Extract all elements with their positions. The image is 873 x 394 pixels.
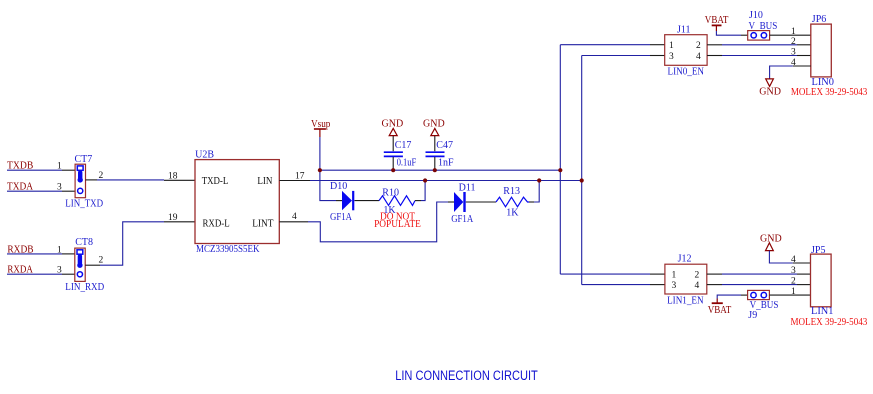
svg-text:LIN1_EN: LIN1_EN <box>667 296 704 307</box>
svg-text:GND: GND <box>759 87 781 98</box>
svg-text:CT7: CT7 <box>75 154 93 165</box>
svg-text:J12: J12 <box>678 253 692 264</box>
node TXDB <box>7 161 34 172</box>
svg-text:R13: R13 <box>503 186 520 197</box>
svg-text:3: 3 <box>669 52 674 62</box>
jumper J10 V_BUS <box>748 10 778 40</box>
connector J11 <box>665 24 707 77</box>
svg-text:4: 4 <box>696 52 701 62</box>
svg-text:17: 17 <box>295 172 305 182</box>
connector JP5 <box>791 245 834 317</box>
svg-text:MCZ33905S5EK: MCZ33905S5EK <box>196 244 260 255</box>
wire VBAT to J9 <box>717 295 747 298</box>
svg-text:Vsup: Vsup <box>311 119 330 130</box>
svg-text:1: 1 <box>57 162 62 172</box>
wire U2B pin 17 (LIN) rail <box>279 180 581 182</box>
svg-text:GND: GND <box>423 119 445 130</box>
svg-text:POPULATE: POPULATE <box>374 219 421 230</box>
wire vertical bus LIN net <box>581 56 583 285</box>
wire J12 pin 2 to JP5 pin 3 <box>707 273 811 275</box>
svg-text:RXD-L: RXD-L <box>203 218 230 229</box>
svg-text:0.1uF: 0.1uF <box>397 157 417 168</box>
wire VBAT to J10 <box>716 31 747 35</box>
svg-text:18: 18 <box>168 171 178 181</box>
wire RXDB to CT8 pin 1 <box>7 253 75 255</box>
svg-text:1: 1 <box>791 27 796 37</box>
svg-text:3: 3 <box>791 266 796 276</box>
wire J12 pin 4 to JP5 pin 2 <box>707 284 811 286</box>
svg-text:LIN1: LIN1 <box>811 306 834 317</box>
svg-text:C17: C17 <box>395 140 412 151</box>
node TXDA <box>7 181 34 192</box>
svg-text:LIN_RXD: LIN_RXD <box>65 282 104 293</box>
wire D10 cathode to R10 <box>355 200 380 202</box>
label MOLEX 39-29-5043 (JP5) <box>791 317 868 328</box>
resistor R13 <box>496 186 529 219</box>
svg-text:D11: D11 <box>459 183 476 194</box>
wire bus to J11 pin 3 <box>582 55 665 57</box>
pin number 2 (CT8) <box>99 255 104 265</box>
svg-text:LIN0_EN: LIN0_EN <box>668 67 705 78</box>
label MOLEX 39-29-5043 (JP6) <box>791 87 867 98</box>
label DO NOT POPULATE <box>374 211 421 230</box>
svg-text:2: 2 <box>695 271 700 281</box>
svg-text:3: 3 <box>57 265 62 275</box>
svg-text:4: 4 <box>292 212 297 222</box>
svg-text:D10: D10 <box>330 181 347 192</box>
svg-text:3: 3 <box>791 48 796 58</box>
svg-text:CT8: CT8 <box>75 237 93 248</box>
svg-text:C47: C47 <box>436 140 453 151</box>
svg-text:3: 3 <box>672 281 677 291</box>
svg-text:TXD-L: TXD-L <box>202 176 229 187</box>
svg-text:LINT: LINT <box>252 218 273 229</box>
svg-text:1nF: 1nF <box>438 157 454 168</box>
IC U2B MCZ33905S5EK <box>195 150 279 255</box>
wire J10 to JP6 pin 1 <box>770 34 811 36</box>
connector JP6 <box>791 14 834 88</box>
power Vsup <box>311 119 330 137</box>
svg-text:MOLEX 39-29-5043: MOLEX 39-29-5043 <box>791 317 868 328</box>
svg-text:2: 2 <box>99 255 104 265</box>
svg-text:LIN CONNECTION CIRCUIT: LIN CONNECTION CIRCUIT <box>395 368 538 383</box>
svg-text:2: 2 <box>696 41 701 51</box>
svg-text:4: 4 <box>791 255 796 265</box>
pin number 3 (CT8) <box>57 265 62 275</box>
power VBAT (top) <box>705 15 729 31</box>
resistor R10 <box>379 188 415 216</box>
pin number 17 <box>295 172 305 182</box>
wire TXDA to CT7 pin 3 <box>7 190 75 192</box>
svg-text:J10: J10 <box>749 10 763 21</box>
wire J9 to JP5 pin 1 <box>769 294 810 296</box>
wire U2B pin 4 (LINT) to D11 anode <box>279 202 454 242</box>
svg-text:19: 19 <box>168 213 178 223</box>
wire TXDB to CT7 pin 1 <box>7 169 75 171</box>
capacitor C47 <box>426 136 455 170</box>
svg-text:GF1A: GF1A <box>330 212 353 223</box>
svg-text:LIN: LIN <box>257 176 272 187</box>
power VBAT (bottom) <box>708 299 732 317</box>
wire JP6 pin 4 to GND <box>770 66 811 79</box>
power GND (C17) <box>382 119 404 136</box>
pin number 18 <box>168 171 178 181</box>
svg-text:2: 2 <box>99 171 104 181</box>
wire bus to J11 pin 1 <box>560 44 664 46</box>
wire R10 to LIN rail riser <box>415 181 425 201</box>
svg-text:GF1A: GF1A <box>451 214 474 225</box>
pin number 3 (CT7) <box>57 182 62 192</box>
ground GND (JP5) <box>760 234 782 251</box>
jumper CT8 <box>75 237 93 282</box>
svg-text:JP6: JP6 <box>812 14 826 25</box>
svg-text:1: 1 <box>791 287 796 297</box>
wire Vsup down to D10 anode <box>320 170 342 200</box>
power GND (C47) <box>423 119 445 136</box>
svg-text:GND: GND <box>760 234 782 245</box>
svg-text:RXDA: RXDA <box>7 264 33 275</box>
wire CT7 pin 2 to U2B pin 18 <box>86 179 196 181</box>
svg-text:2: 2 <box>791 277 796 287</box>
wire GND to JP5 pin 4 <box>769 251 810 263</box>
jumper CT7 <box>75 154 93 198</box>
pin number 2 (CT7) <box>99 171 104 181</box>
svg-text:3: 3 <box>57 182 62 192</box>
wire J11 pin 2 to JP6 pin 2 <box>707 44 811 46</box>
wire bus to J12 pin 3 <box>582 284 665 286</box>
svg-text:LIN_TXD: LIN_TXD <box>65 199 103 210</box>
node RXDA <box>7 264 33 275</box>
diode D11 GF1A <box>451 183 475 225</box>
svg-text:1K: 1K <box>506 208 519 219</box>
junction dots <box>318 168 584 183</box>
svg-text:R10: R10 <box>382 188 399 199</box>
svg-text:VBAT: VBAT <box>708 305 732 316</box>
svg-text:GND: GND <box>382 119 404 130</box>
title LIN CONNECTION CIRCUIT <box>395 368 538 383</box>
svg-text:J11: J11 <box>677 24 691 35</box>
pin number 1 (CT7) <box>57 162 62 172</box>
wire D11 cathode to R13 <box>466 201 496 203</box>
capacitor C17 <box>384 136 417 170</box>
svg-text:1: 1 <box>672 271 677 281</box>
label LIN_RXD <box>65 282 104 293</box>
ground GND (JP6) <box>759 79 781 98</box>
svg-text:MOLEX 39-29-5043: MOLEX 39-29-5043 <box>791 87 867 98</box>
jumper J9 V_BUS <box>748 290 779 321</box>
wire RXDA to CT8 pin 3 <box>7 273 75 275</box>
wire vertical bus V_sup net <box>559 45 561 274</box>
wire Vsup stem <box>319 137 321 170</box>
label LIN_TXD <box>65 199 103 210</box>
wire J11 pin 4 to JP6 pin 3 <box>707 55 811 57</box>
pin number 19 <box>168 213 178 223</box>
wire R13 to LIN rail riser <box>529 181 539 203</box>
svg-text:1: 1 <box>669 41 674 51</box>
wire bus to J12 pin 1 <box>560 273 665 275</box>
wire CT8 pin 2 to U2B pin 19 <box>85 222 195 265</box>
node RXDB <box>7 245 33 256</box>
diode D10 GF1A <box>330 181 353 223</box>
pin number 4 <box>292 212 297 222</box>
svg-text:J9: J9 <box>748 310 757 321</box>
pin number 1 (CT8) <box>57 246 62 256</box>
svg-text:2: 2 <box>791 37 796 47</box>
svg-text:4: 4 <box>695 281 700 291</box>
wire Vsup rail <box>320 169 560 171</box>
svg-text:1: 1 <box>57 246 62 256</box>
connector J12 <box>665 253 707 306</box>
